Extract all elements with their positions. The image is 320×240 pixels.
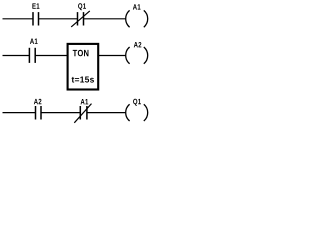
label Q1 coil [133, 99, 141, 106]
contact E1 (NO) [33, 12, 39, 25]
coil A1 [126, 10, 148, 27]
wire rung3 mid [41, 112, 80, 114]
label t=15s [72, 77, 94, 83]
contact A1 (NO) [29, 48, 35, 63]
label A1 contact [30, 39, 38, 44]
contact A2 (NO) [36, 106, 42, 120]
wire rung3 right [87, 112, 126, 114]
wire rung1 left [3, 18, 34, 20]
contact A1 (NC) [80, 106, 87, 120]
label Q1 [78, 3, 86, 10]
wire rung2 mid [35, 55, 67, 57]
label A2 contact [34, 99, 42, 104]
label A1 contact rung3 [81, 99, 89, 104]
wire rung2 right [99, 55, 126, 57]
label A1 coil [133, 4, 141, 9]
wire rung1 right [84, 18, 126, 20]
wire rung2 left [3, 55, 30, 57]
label TON [73, 50, 89, 57]
contact Q1 slash [71, 11, 90, 27]
contact Q1 (NC) [78, 12, 84, 25]
coil Q1 [126, 104, 148, 121]
coil A2 [126, 47, 148, 64]
label A2 coil [134, 42, 142, 47]
label E1 [32, 3, 39, 8]
timer block TON [68, 44, 99, 90]
contact A1 slash [74, 104, 91, 123]
wire rung1 mid [39, 18, 78, 20]
wire rung3 left [3, 112, 36, 114]
